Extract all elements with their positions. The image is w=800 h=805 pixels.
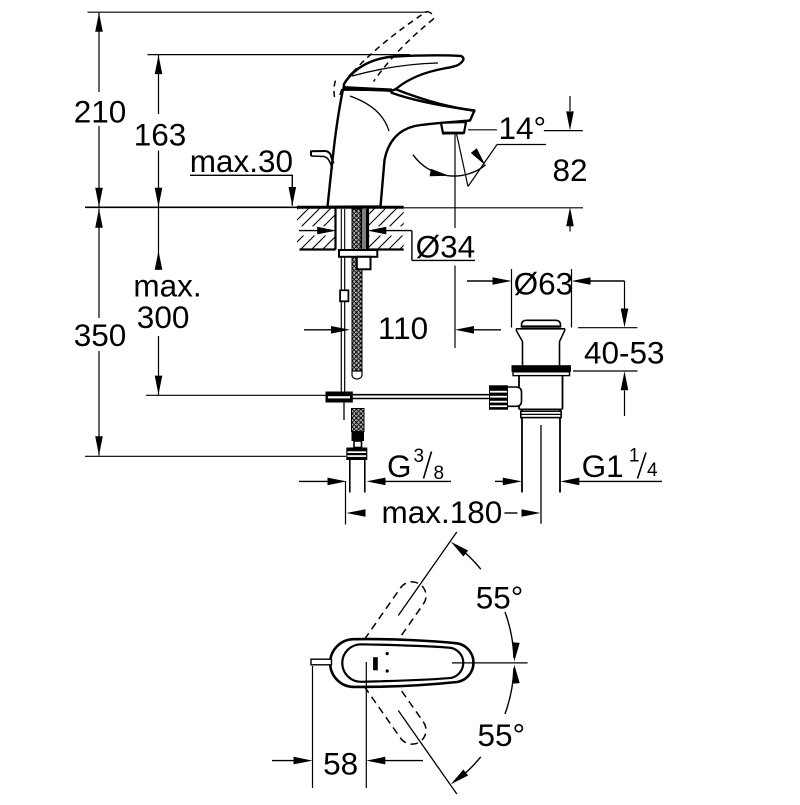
mounting washer under countertop [339,250,377,257]
pop-up rod pivot block [326,392,353,403]
handle front lip over spout [395,89,475,111]
pop-up rod knob at back of faucet [311,151,334,164]
dimension Ø63 waste plug [511,269,513,328]
handle-body joint thick line [343,88,393,90]
svg-text:350: 350 [74,317,127,353]
pop-up rod lower end [343,403,345,421]
label G1 1/4 with arrows at tailpipe [495,480,504,482]
waste upper neck [522,342,524,366]
dimension line 350 [98,209,100,319]
countertop hole dimension arrows [299,230,318,232]
swing axis line lower 55 deg [398,711,457,795]
swing axis line upper 55 deg [398,532,457,616]
svg-text:8: 8 [434,463,445,484]
horizontal centerline of swing [452,662,528,664]
countertop underside line [300,248,336,250]
dimension line 163 [158,55,160,114]
body inner contour line [350,96,389,131]
tailpipe centerline [540,425,542,524]
knurled height adjuster knob [489,385,508,409]
countertop top surface line [85,206,297,208]
svg-text:110: 110 [378,310,428,346]
svg-text:14°: 14° [499,110,547,146]
14 deg angle arc with arrows [413,155,486,176]
G 3/8 threaded tube end [349,460,351,493]
G 3/8 connector nut [346,448,367,461]
55 deg arc lower with arrows [505,668,514,714]
flexible supply hose (braided) upper part [352,209,362,372]
svg-text:58: 58 [323,745,358,781]
svg-text:300: 300 [137,299,190,335]
label G 3/8 with arrows at hose connector [299,480,328,482]
handle top view inner outline [342,644,463,682]
svg-text:G1: G1 [582,448,624,484]
svg-text:3: 3 [414,446,425,467]
label 14 deg [468,129,497,131]
hose end fitting [352,432,365,442]
dashed raised handle position [334,81,336,98]
dimension 110 spout reach [454,266,456,348]
dashed handle swung position upper [342,576,431,687]
svg-text:210: 210 [74,94,127,130]
label Ø34 with leader [411,231,413,261]
threaded shank through countertop [334,209,336,250]
faucet handle lever (side view) [344,55,464,90]
dimension 82 outlet height [544,130,583,132]
faucet body and spout [328,90,475,207]
aerator at spout outlet [441,122,466,134]
adjuster connector to body [508,387,522,406]
14 deg tilted stream line [457,134,469,187]
svg-text:82: 82 [552,152,587,188]
water stream reference line [454,134,456,229]
svg-text:max.30: max.30 [190,143,293,179]
tailpipe collar [521,411,561,417]
svg-text:1: 1 [629,446,640,467]
pop-up knob pin top view [311,659,332,665]
55 deg arc upper with arrows [457,546,481,570]
dimension line max.300 [158,251,160,271]
pop-up waste plug cap [522,320,561,327]
dimension 210 reference line at raised handle top [88,11,428,13]
dimension 58 [312,666,314,788]
waste valve body [518,376,520,410]
svg-text:max.180: max.180 [382,494,503,530]
leader from tilted line to 14 deg label [468,145,497,187]
dashed handle swung position lower [342,639,431,750]
dimension max.180 [345,481,347,525]
svg-text:G: G [387,448,412,484]
horizontal pop-up linkage rod [353,394,490,396]
svg-text:Ø34: Ø34 [416,229,476,265]
svg-text:4: 4 [647,460,658,481]
pop-up vertical rod [340,257,342,392]
waste threaded tailpipe G1 1/4 [521,409,523,492]
hose end reference line for max.300 [146,394,326,396]
dimension line 210 [98,12,100,92]
svg-text:40-53: 40-53 [584,335,665,371]
dimension 40-53 waste adjustment [578,327,638,329]
waste plug rim [516,328,565,330]
handle top view outer outline [330,639,473,687]
handle inner contour line [352,63,438,76]
svg-text:55°: 55° [476,580,524,616]
supply hose connection reference line for 350 [85,455,346,457]
svg-text:163: 163 [134,116,187,152]
svg-text:Ø63: Ø63 [514,266,574,302]
svg-text:55°: 55° [478,717,526,753]
waste basin flange (seal) [512,365,572,372]
hose lower braided segment [352,409,365,432]
handle indicator marks [373,657,378,670]
mounting nut [357,257,371,270]
dimension 163 reference line at handle top [148,54,411,56]
collar on pop-up rod [340,290,348,301]
